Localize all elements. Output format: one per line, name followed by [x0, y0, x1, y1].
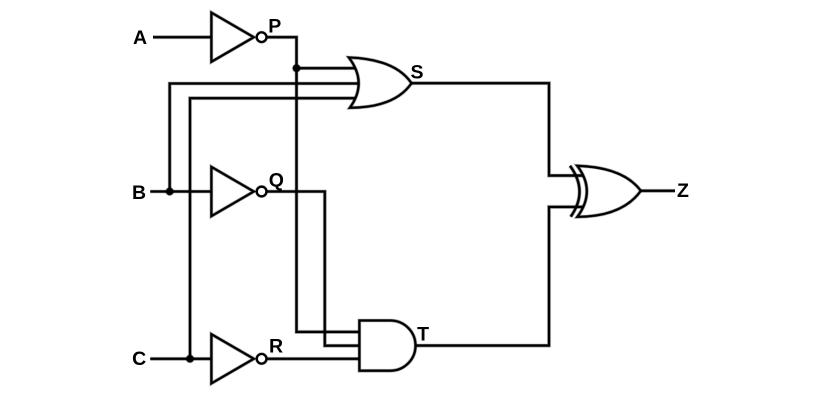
svg-text:A: A [133, 27, 147, 49]
svg-text:T: T [417, 324, 429, 346]
svg-text:S: S [410, 62, 423, 84]
svg-text:Z: Z [677, 180, 689, 202]
svg-text:C: C [132, 348, 146, 370]
svg-text:R: R [269, 335, 283, 357]
svg-text:Q: Q [269, 170, 284, 192]
svg-text:P: P [268, 15, 281, 37]
svg-text:B: B [132, 182, 146, 204]
